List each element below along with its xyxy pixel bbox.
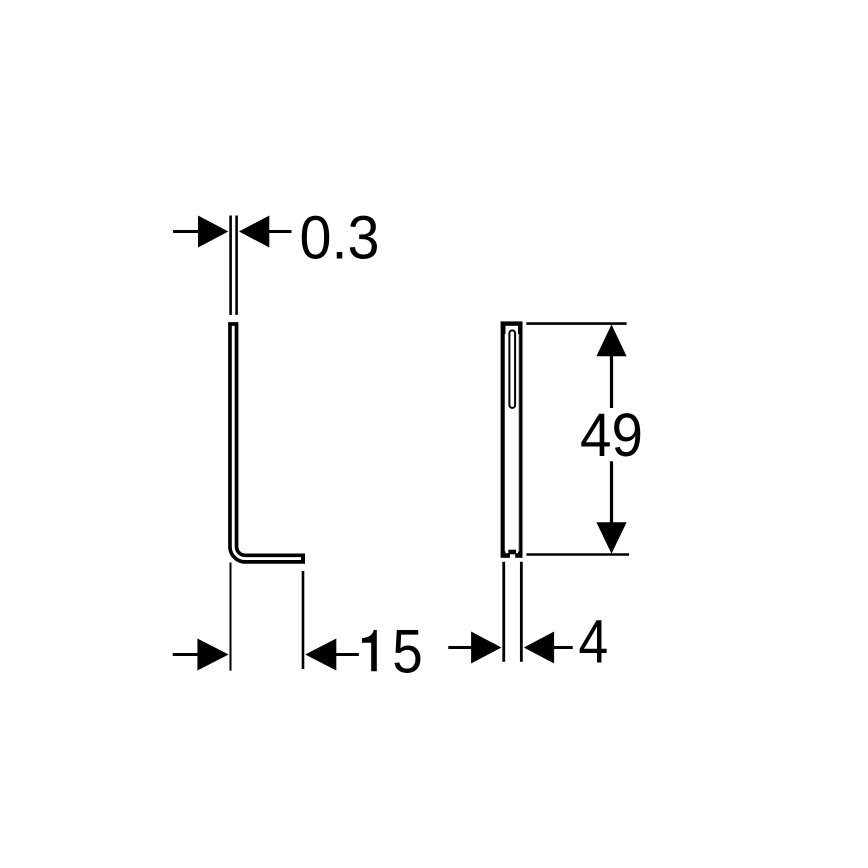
svg-text:5: 5 [392, 618, 423, 686]
svg-text:0.3: 0.3 [300, 203, 380, 272]
svg-text:49: 49 [580, 402, 643, 469]
svg-text:4: 4 [578, 608, 608, 676]
